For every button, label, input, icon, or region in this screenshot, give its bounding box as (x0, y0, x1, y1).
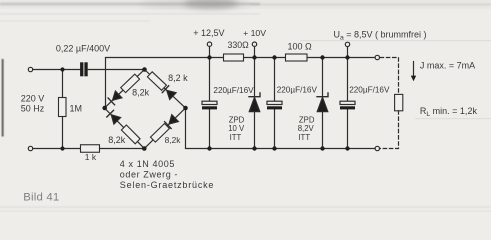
terminal +10V stub (252, 42, 256, 58)
dashed load wire top (380, 58, 398, 95)
capacitor C1 220uF branch (209, 58, 211, 149)
resistor 330 Ohm body (224, 54, 244, 61)
node rail zener1 top (252, 55, 256, 59)
node rail C3 top (345, 55, 349, 59)
bridge arm wire bottom-right (144, 108, 185, 149)
diode D1 upper-left (108, 91, 122, 105)
svg-text:100 Ω: 100 Ω (288, 42, 313, 52)
bridge arm wire top-right (145, 70, 186, 109)
bridge arm wire top-left (105, 70, 145, 109)
input terminal bottom (28, 146, 32, 150)
capacitor C2 220uF branch (274, 58, 276, 149)
resistor R 1M body (59, 98, 67, 117)
svg-text:ZPD: ZPD (299, 115, 315, 124)
node rail C2 top (272, 55, 276, 59)
svg-text:Selen-Graetzbrücke: Selen-Graetzbrücke (120, 180, 214, 190)
svg-text:8,2k: 8,2k (132, 87, 150, 97)
terminal output top (375, 55, 379, 59)
current arrow Imax (411, 62, 416, 82)
svg-text:220µF/16V: 220µF/16V (349, 85, 390, 94)
node rail C1 top (207, 55, 211, 59)
resistor 8,2k upper-left body (121, 74, 140, 93)
svg-text:50 Hz: 50 Hz (21, 103, 45, 113)
svg-text:330Ω: 330Ω (228, 40, 250, 50)
diode D3 lower-left (107, 110, 121, 124)
capacitor C3 220uF branch (347, 58, 349, 149)
svg-text:220µF/16V: 220µF/16V (277, 85, 318, 94)
capacitor C3 plates (340, 101, 355, 109)
svg-text:8,2k: 8,2k (165, 135, 182, 145)
page-edge artifact bar (2, 59, 4, 137)
capacitor C 0,22uF/400V (80, 62, 88, 76)
node rail zener2 bottom (320, 146, 324, 150)
node rail C2 bottom (272, 146, 276, 150)
node rail C1 bottom (207, 146, 211, 150)
resistor R 1M vertical branch wire (62, 70, 64, 149)
wire top AC to bridge (88, 69, 145, 71)
zener ZPD 8,2V symbol (317, 93, 328, 112)
zener ZPD 10V branch (254, 58, 256, 149)
load resistor RL body (395, 94, 403, 110)
svg-text:0,22 µF/400V: 0,22 µF/400V (56, 44, 110, 54)
capacitor C1 plates (202, 101, 217, 109)
wire bottom rail (210, 148, 378, 150)
terminal +12,5V stub (207, 42, 211, 58)
svg-text:+ 10V: + 10V (243, 28, 266, 38)
bridge arm wire bottom-left (105, 108, 145, 149)
junction node dots (60, 55, 349, 151)
svg-text:10 V: 10 V (228, 124, 245, 133)
diode D4 lower-right (165, 115, 179, 129)
svg-text:oder Zwerg -: oder Zwerg - (120, 170, 178, 180)
svg-text:1M: 1M (70, 103, 83, 113)
svg-text:220µF/16V: 220µF/16V (213, 86, 254, 95)
dashed load wire bottom (380, 111, 398, 149)
terminal Ua stub (345, 42, 349, 57)
svg-text:ITT: ITT (230, 133, 242, 142)
svg-text:ZPD: ZPD (229, 115, 245, 124)
svg-text:Bild 41: Bild 41 (23, 191, 59, 203)
capacitor C2 plates (267, 101, 282, 109)
resistor 100 Ohm body (286, 54, 308, 61)
svg-text:8,2 k: 8,2 k (168, 73, 188, 83)
svg-text:ITT: ITT (298, 133, 310, 142)
svg-text:220 V: 220 V (21, 93, 45, 103)
resistor 8,2k upper-right body (147, 72, 166, 91)
node bridge top (142, 67, 147, 72)
wire bridge left node up to +rail corner (106, 58, 210, 109)
wire bridge right node down to -rail corner (186, 108, 210, 149)
node rail zener2 top (320, 55, 324, 59)
node 1M bottom junction (60, 146, 64, 150)
wire bottom AC to bridge (100, 148, 145, 150)
wire top rail mid (210, 57, 378, 59)
svg-text:4 x 1N 4005: 4 x 1N 4005 (120, 159, 175, 169)
zener ZPD 10V symbol (249, 93, 260, 112)
node 1M top junction (60, 67, 64, 71)
svg-text:8,2k: 8,2k (108, 135, 126, 145)
node bridge left (102, 106, 107, 111)
node bridge right (183, 106, 188, 111)
resistor 8,2k lower-left body (121, 125, 140, 144)
svg-text:8,2V: 8,2V (298, 124, 315, 133)
resistor R 1k body (81, 145, 100, 153)
resistor 8,2k lower-right body (151, 124, 170, 143)
wire top AC input (33, 69, 80, 71)
svg-text:1 k: 1 k (85, 152, 97, 162)
node rail C3 bottom (345, 146, 349, 150)
node bridge bottom (142, 146, 147, 151)
svg-text:J max. = 7mA: J max. = 7mA (420, 60, 475, 70)
terminal output bottom (375, 146, 379, 150)
input terminal top (28, 67, 32, 71)
zener ZPD 8,2V branch (322, 58, 324, 149)
wire bottom AC input (33, 148, 81, 150)
node rail zener1 bottom (252, 146, 256, 150)
svg-text:+ 12,5V: + 12,5V (193, 28, 224, 38)
diode D2 upper-right (162, 86, 176, 100)
